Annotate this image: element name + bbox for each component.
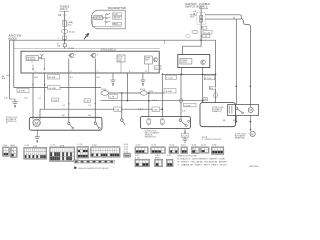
switch S7 rear actuator bbox=[235, 107, 243, 114]
svg-text:D-28: D-28 bbox=[114, 109, 120, 111]
svg-text:C-73: C-73 bbox=[109, 97, 115, 99]
svg-text:J/C(4): J/C(4) bbox=[101, 89, 107, 91]
connector C-05 pin view bbox=[24, 146, 47, 159]
relay box dashed enclosure bbox=[190, 13, 205, 25]
svg-text:C-04: C-04 bbox=[3, 145, 8, 147]
svg-text:D-31: D-31 bbox=[167, 155, 172, 157]
drawing number bbox=[250, 165, 259, 168]
connector label D-11 bbox=[152, 145, 157, 147]
svg-text:2-B: 2-B bbox=[62, 115, 66, 117]
wire label +B 30B boxed on F1 feed bbox=[63, 44, 74, 50]
svg-text:①: ① bbox=[6, 122, 8, 125]
svg-text:D-02: D-02 bbox=[92, 144, 97, 146]
door lock actuator rear RH label bbox=[235, 133, 247, 139]
svg-text:D-11: D-11 bbox=[152, 145, 157, 147]
fuse 30A on F1 wire bbox=[63, 21, 73, 27]
connector label C-04 bbox=[3, 145, 8, 147]
node power rail left tap bbox=[181, 74, 183, 76]
ground G4 front actuator bbox=[35, 137, 40, 143]
node unlock rail tap 2 bbox=[148, 100, 150, 102]
wire ETACS pin to junction connector column bbox=[128, 71, 148, 101]
wire receiver output 2 with arrow bbox=[39, 58, 46, 70]
connector A-05 pin view bbox=[11, 147, 18, 157]
connector tick on bus right of ETACS bbox=[163, 40, 165, 44]
node tick right column B bbox=[250, 86, 252, 88]
wire power supply output left bbox=[180, 68, 182, 75]
fuse label in junction block bbox=[57, 44, 61, 48]
logic block B2 in ETACS bbox=[145, 56, 153, 64]
svg-text:4B: 4B bbox=[223, 120, 226, 122]
switch S3 panic inside transmitter bbox=[106, 21, 122, 26]
note text block bbox=[202, 137, 221, 141]
control circuit block inside transmitter bbox=[94, 16, 103, 21]
svg-text:C-72: C-72 bbox=[51, 144, 56, 146]
svg-text:BLOCK: BLOCK bbox=[8, 36, 17, 40]
connector D-15 pin view bbox=[181, 147, 188, 154]
connector label D-31 bbox=[167, 155, 172, 157]
svg-text:P: P bbox=[97, 54, 99, 56]
node rail bus join bbox=[215, 74, 217, 76]
fusible link F1 label bbox=[59, 6, 70, 11]
keyless receiver block bbox=[26, 56, 39, 61]
svg-text:②: ② bbox=[233, 17, 235, 20]
svg-text:D-10: D-10 bbox=[136, 145, 141, 147]
connector pin oval P1 bbox=[147, 118, 151, 125]
connector D-09 pin view bbox=[124, 153, 131, 157]
svg-text:1-B: 1-B bbox=[58, 14, 62, 17]
node tick right column A bbox=[236, 86, 238, 88]
svg-text:L-4: L-4 bbox=[62, 105, 65, 107]
transistor Q1 in ETACS bbox=[68, 53, 77, 58]
node ignition bus crossing bbox=[200, 39, 202, 41]
door lock actuator rear LH label bbox=[212, 107, 224, 113]
junction block label bbox=[8, 34, 21, 41]
svg-text:1: 1 bbox=[58, 38, 60, 40]
connector label on ignition wire bbox=[202, 26, 207, 29]
fusible link F3 label bbox=[199, 2, 210, 9]
wire labels above actuator bbox=[62, 105, 92, 117]
connector D-29 pin view bbox=[135, 159, 149, 166]
svg-text:A-05: A-05 bbox=[11, 144, 16, 147]
svg-text:D-23: D-23 bbox=[201, 145, 206, 147]
svg-text:M: M bbox=[250, 108, 252, 112]
wire label 1 D-28 boxed on lock rail bbox=[114, 107, 122, 111]
wire ETACS pin to front actuator lock bbox=[32, 71, 38, 119]
pin labels rear box bottom bbox=[223, 120, 236, 122]
svg-text:CIRCUIT: CIRCUIT bbox=[94, 18, 101, 20]
switch S5 actuator position 2 bbox=[94, 122, 100, 129]
svg-text:UNIT: UNIT bbox=[145, 60, 149, 62]
svg-text:UNLOCK: UNLOCK bbox=[113, 18, 121, 20]
ground G3 junction block bbox=[12, 102, 17, 108]
svg-text:B-W: B-W bbox=[34, 77, 38, 79]
node unlock rail tap 1 bbox=[127, 100, 129, 102]
node unlock rail end bbox=[202, 100, 204, 102]
node battery rail drop tap bbox=[121, 92, 123, 94]
ETACS-ECU U2 box bbox=[21, 51, 159, 73]
wire junction block ground branch bbox=[4, 97, 15, 101]
connector pin bars in rear box bbox=[229, 106, 232, 114]
svg-text:B-Y: B-Y bbox=[70, 77, 74, 79]
transistor Q3 in ETACS bbox=[153, 58, 157, 62]
connector D-03 strip pin view bbox=[74, 160, 114, 163]
switch S6 key cylinder front bbox=[179, 119, 190, 126]
svg-text:C-05: C-05 bbox=[25, 145, 30, 147]
connector label D-28 bbox=[212, 145, 217, 147]
connector label C-05 on power rail bbox=[204, 76, 214, 80]
switch S4 actuator position 1 bbox=[68, 122, 74, 129]
svg-text:PANIC: PANIC bbox=[113, 22, 119, 25]
connector tick 1-B on F1 wire bbox=[58, 14, 67, 17]
connector notes column bbox=[124, 144, 128, 153]
wire fusible link F1 down-feed bbox=[64, 11, 66, 49]
wire ignition switch feed bbox=[183, 8, 202, 54]
svg-text:L-4: L-4 bbox=[38, 98, 42, 100]
connector label C-72 bbox=[51, 144, 56, 146]
wire power rail to rear door area bbox=[162, 74, 216, 76]
connector label C-73 under J1 bbox=[109, 95, 118, 99]
svg-text:4 C-05: 4 C-05 bbox=[205, 78, 212, 80]
contact K1 open terminal bbox=[121, 119, 126, 126]
connector D-02 pin view bbox=[91, 147, 121, 157]
wire lock rail above actuator bbox=[40, 108, 163, 110]
svg-text:1-B: 1-B bbox=[182, 111, 186, 113]
door lock key cylinder switch box front bbox=[140, 117, 190, 129]
connector label D-16 bbox=[192, 145, 197, 147]
junction connector J/C(2) oval on F1 wire bbox=[61, 29, 74, 33]
door lock actuator rear LH body bbox=[200, 103, 236, 127]
connector D-31 pin view bbox=[167, 159, 174, 166]
svg-text:D-28: D-28 bbox=[212, 145, 217, 147]
svg-text:L-4: L-4 bbox=[89, 105, 92, 107]
logic block B1 in ETACS bbox=[117, 55, 125, 62]
svg-text:M: M bbox=[251, 133, 253, 136]
svg-text:4 C-05: 4 C-05 bbox=[166, 78, 173, 80]
svg-text:B : BLACK LG : LIGHT GREEN: B : BLACK LG : LIGHT GREEN G : GREEN L :… bbox=[178, 158, 226, 161]
svg-text:TRANSMITTER: TRANSMITTER bbox=[108, 6, 127, 10]
svg-text:30B: 30B bbox=[2, 78, 6, 80]
svg-text:D-15: D-15 bbox=[181, 145, 186, 147]
wire rear switch stub down bbox=[235, 116, 237, 123]
ignition switch IG1 label bbox=[185, 2, 202, 9]
svg-text:1 C-73: 1 C-73 bbox=[204, 32, 211, 34]
connector label D-30 bbox=[155, 155, 161, 159]
svg-text:D-14: D-14 bbox=[170, 145, 175, 147]
wire logic block B1 stub bbox=[120, 62, 122, 73]
svg-text:4 D-28: 4 D-28 bbox=[184, 105, 191, 107]
wire band second drop bbox=[235, 19, 237, 104]
wire to key cylinder pin A bbox=[148, 92, 150, 117]
connector D-14 pin view bbox=[169, 147, 178, 154]
power supply unit box bbox=[178, 55, 210, 68]
transistor Q4 in power supply bbox=[201, 60, 206, 65]
wire label 1-B-4 on lock rail bbox=[138, 109, 144, 111]
wire unlock rail bbox=[101, 100, 203, 102]
wire battery rail middle bbox=[109, 92, 141, 94]
wire ETACS pin to key cylinder column bbox=[161, 73, 163, 117]
wire power bus along junction block top bbox=[10, 40, 216, 102]
transistor Q2 in ETACS bbox=[90, 53, 99, 58]
svg-text:M: M bbox=[35, 121, 38, 125]
wire drop to key contact bbox=[114, 93, 122, 119]
motor M2 rear bbox=[248, 108, 253, 113]
wire label B-4 boxed on rear feed bbox=[209, 86, 216, 90]
connector label C-05 on wire bbox=[165, 75, 176, 79]
wire motor to lock rail bbox=[39, 109, 41, 119]
connector D-23 pin view bbox=[201, 147, 209, 153]
connector D-10a pin view bbox=[135, 147, 148, 154]
svg-text:C-04: C-04 bbox=[52, 100, 58, 102]
connector label D-02 bbox=[92, 144, 97, 146]
connector D-28 pin view bbox=[211, 147, 224, 154]
svg-text:6-B: 6-B bbox=[203, 99, 207, 101]
wire ETACS pin to key cylinder switch bbox=[181, 73, 186, 119]
wire key cylinder ground stem bbox=[184, 129, 186, 139]
svg-text:C-05: C-05 bbox=[85, 101, 91, 103]
actuator mech box rear bbox=[228, 105, 259, 116]
node power rail right tap bbox=[202, 74, 204, 76]
svg-text:O : ORANGE GR : GRAY R : R: O : ORANGE GR : GRAY R : RED P : PINK V … bbox=[178, 163, 228, 166]
svg-text:4B 30B: 4B 30B bbox=[48, 77, 56, 79]
wire label +B 30B boxed bbox=[17, 88, 29, 92]
connector D-16 pin view bbox=[191, 147, 199, 154]
motor M1 front LH bbox=[33, 119, 40, 126]
wire ETACS pin to actuator switch 1 bbox=[68, 58, 74, 122]
connector pin oval P2 bbox=[160, 118, 164, 125]
connector C-73 pin view bbox=[77, 147, 89, 159]
junction block inner edge line bbox=[14, 48, 160, 50]
junction connector J/C(1) oval on ignition wire bbox=[192, 30, 212, 34]
wire label L-4 column bbox=[38, 98, 42, 100]
junction connector J/C(1) oval J2 bbox=[140, 89, 147, 95]
connector C-72 pin view bbox=[49, 146, 74, 162]
svg-text:∗ : FRONT LH DOOR: ∗ : FRONT LH DOOR bbox=[202, 138, 221, 141]
wire battery rail right bbox=[147, 91, 164, 93]
svg-text:+B 30B: +B 30B bbox=[67, 48, 74, 50]
connector label C-05 bbox=[25, 145, 30, 147]
switch S2 unlock inside transmitter bbox=[106, 17, 122, 20]
svg-text:P: P bbox=[75, 54, 77, 56]
wire battery rail from junction block bbox=[14, 87, 101, 89]
switch S1 lock inside transmitter bbox=[106, 13, 122, 16]
svg-text:10A: 10A bbox=[57, 45, 61, 48]
connector label C-72 on F1 wire bbox=[58, 36, 67, 40]
transmitter U1 (key fob) outline bbox=[91, 10, 125, 29]
wire transmitter internal bus bbox=[93, 14, 122, 26]
connector label 6-B on drop bbox=[203, 98, 208, 102]
fuse F2b inside relay box bbox=[200, 19, 203, 22]
antenna A1 bbox=[39, 54, 44, 60]
connector label on ground stem bbox=[182, 134, 189, 138]
ETACS-ECU label bbox=[101, 47, 116, 51]
svg-text:RECEIVER: RECEIVER bbox=[27, 59, 37, 61]
connector D-11 pin view bbox=[151, 147, 166, 154]
connector label D-10a bbox=[136, 145, 141, 147]
svg-text:D-16: D-16 bbox=[192, 145, 197, 147]
wire label 4B 30B boxed on battery rail bbox=[48, 85, 60, 89]
arrow on key cylinder ground stem bbox=[184, 132, 186, 134]
svg-text:C-73: C-73 bbox=[77, 144, 82, 146]
transmitter label bbox=[108, 6, 127, 10]
svg-text:B-4: B-4 bbox=[24, 98, 28, 100]
connector oval on rear feed bbox=[214, 91, 218, 98]
door lock key cylinder switch label bbox=[145, 130, 159, 138]
svg-text:+B 30B: +B 30B bbox=[48, 88, 56, 90]
svg-text:SUPPLY: SUPPLY bbox=[181, 62, 189, 64]
ground G1 from ETACS bbox=[110, 73, 115, 86]
ground G2 from ETACS bbox=[140, 73, 145, 86]
node F1 to junction block bus bbox=[64, 39, 66, 41]
connector label box mid-left 1 bbox=[52, 98, 59, 102]
wire receiver output 1 with arrow bbox=[32, 61, 34, 71]
svg-text:(REAR LH): (REAR LH) bbox=[212, 110, 222, 113]
connector label D-28 right of switch feed bbox=[184, 104, 197, 108]
svg-text:J/C(2): J/C(2) bbox=[69, 32, 75, 34]
connector label D-15 bbox=[181, 145, 186, 147]
svg-text:LINK ①: LINK ① bbox=[60, 8, 68, 11]
wire rear motor down with arrow bbox=[250, 116, 252, 132]
connector label D-29 bbox=[135, 155, 140, 159]
svg-text:LINK ②: LINK ② bbox=[199, 5, 208, 9]
strip footnote bbox=[74, 167, 109, 170]
wire label 4 D-28 boxed on lock rail bbox=[152, 107, 160, 111]
svg-text:J/C(1): J/C(1) bbox=[140, 89, 146, 91]
connector D-30 pin view bbox=[155, 159, 163, 166]
fusible link band from relay box bbox=[205, 15, 242, 20]
connector C-04 pin view bbox=[3, 147, 10, 156]
wire logic block B2 stub bbox=[148, 64, 150, 73]
svg-text:BOX: BOX bbox=[190, 17, 195, 19]
wire junction block left edge inner bbox=[13, 40, 15, 87]
door lock actuator front LH body bbox=[29, 117, 102, 130]
connector label C-72 on ignition wire bbox=[186, 35, 210, 39]
wire ETACS pin to door lock feed bbox=[44, 73, 46, 109]
connector label A-05 bbox=[11, 144, 16, 147]
connector pin oval on switch feed bbox=[180, 98, 183, 103]
wire ETACS pin to actuator switch 2 bbox=[95, 58, 101, 122]
svg-text:(FRONT LH): (FRONT LH) bbox=[145, 136, 156, 138]
svg-text:CTRL: CTRL bbox=[118, 60, 122, 62]
svg-text:D-28: D-28 bbox=[182, 136, 188, 138]
svg-text:+B 30B: +B 30B bbox=[18, 91, 26, 93]
connector label C-73 bbox=[77, 144, 82, 146]
connector label box mid-left 2 bbox=[84, 99, 90, 103]
connector label D-14 bbox=[170, 145, 175, 147]
connector label D-23 bbox=[201, 145, 206, 147]
connector strip D-03 label bbox=[74, 159, 79, 161]
svg-text:1-B: 1-B bbox=[4, 97, 8, 99]
junction connector J/C(4) oval J1 bbox=[101, 89, 109, 95]
svg-text:AC213550: AC213550 bbox=[250, 165, 259, 168]
svg-text:W : WHITE Y : YELLOW SB :: W : WHITE Y : YELLOW SB : SKY BLUE BR : … bbox=[178, 161, 228, 163]
wire label 1-G 4 bbox=[152, 100, 158, 102]
wire power supply output right bbox=[202, 68, 204, 103]
svg-text:D-28: D-28 bbox=[153, 109, 159, 111]
wire junction block left edge outer bbox=[9, 40, 11, 99]
wire label B-4 left column bbox=[24, 98, 28, 100]
pin box ETACS right interior bbox=[155, 66, 162, 70]
svg-text:M-4: M-4 bbox=[68, 25, 73, 27]
svg-text:WIRE COLOR CODE: WIRE COLOR CODE bbox=[178, 156, 198, 158]
svg-text:B-R: B-R bbox=[97, 77, 101, 79]
wire label IG1 feed bbox=[193, 10, 197, 15]
wire band to right column bbox=[242, 18, 251, 106]
svg-text:+B 30B: +B 30B bbox=[165, 91, 173, 93]
wire label 1-B boxed end of battery rail bbox=[164, 89, 176, 93]
door lock actuator front LH label bbox=[6, 117, 18, 125]
svg-text:(REAR RH): (REAR RH) bbox=[235, 136, 245, 139]
wire color code legend bbox=[178, 156, 228, 167]
wire label 4B 30B at left edge bbox=[2, 76, 10, 81]
radio signal arrow to transmitter bbox=[84, 33, 89, 39]
ground G5 key cylinder bbox=[182, 139, 187, 142]
connector label C-04 on wire bbox=[48, 75, 60, 79]
motor M3 rear RH bbox=[250, 131, 255, 136]
wire actuator ground stem bbox=[36, 130, 38, 136]
svg-text:1-B: 1-B bbox=[88, 115, 92, 117]
power supply label block bbox=[180, 59, 192, 64]
svg-text:: 45-46-47-48-49-50-51-52-53: : 45-46-47-48-49-50-51-52-53 (D-03) bbox=[77, 168, 108, 170]
fuse F2a inside relay box bbox=[200, 16, 203, 19]
